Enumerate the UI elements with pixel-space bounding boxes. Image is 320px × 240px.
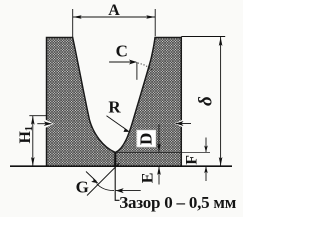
svg-text:Зазор 0 – 0,5 мм: Зазор 0 – 0,5 мм	[119, 193, 236, 212]
svg-text:C: C	[116, 41, 128, 60]
svg-text:H1: H1	[17, 126, 35, 143]
svg-text:R: R	[108, 97, 121, 116]
svg-text:G: G	[76, 177, 89, 196]
svg-text:δ: δ	[195, 96, 216, 106]
svg-text:F: F	[183, 155, 200, 165]
svg-text:D: D	[137, 133, 156, 145]
svg-text:A: A	[108, 2, 120, 19]
svg-text:E: E	[140, 173, 157, 184]
